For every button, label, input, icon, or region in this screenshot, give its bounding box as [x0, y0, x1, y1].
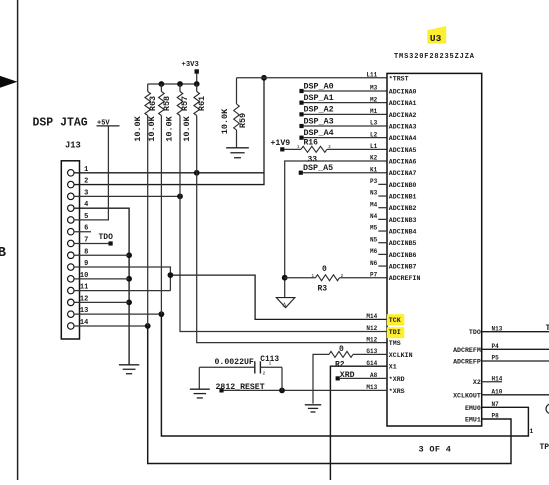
IC pin M5 ADCINB4	[370, 225, 417, 236]
svg-text:ADCINA6: ADCINA6	[389, 159, 417, 166]
svg-text:DSP_A1: DSP_A1	[304, 93, 334, 103]
IC pin A10 XCLKOUT	[453, 389, 503, 400]
IC pin M6 ADCINB6	[370, 248, 417, 259]
svg-text:1: 1	[530, 428, 534, 435]
svg-text:10.0K: 10.0K	[220, 108, 230, 134]
connector J13 pin 13	[68, 307, 89, 317]
svg-text:ADCREFP: ADCREFP	[453, 359, 481, 366]
IC pin G14 X1	[366, 360, 396, 371]
svg-text:ADCINB2: ADCINB2	[389, 205, 417, 212]
IC pin P3 ADCINB0	[370, 178, 417, 189]
resistor R57 (10.0K pullup, TDI net)	[177, 84, 183, 196]
svg-text:ADCINB5: ADCINB5	[389, 240, 417, 247]
svg-text:L2: L2	[370, 131, 378, 138]
R2 (0 ohm) on XCLKIN to ground	[313, 351, 387, 403]
connector J13 pin 5	[68, 213, 89, 223]
svg-text:0: 0	[339, 345, 344, 354]
svg-text:EMU0: EMU0	[465, 405, 481, 412]
svg-text:*TRST: *TRST	[389, 75, 409, 82]
svg-text:XCLKOUT: XCLKOUT	[453, 392, 481, 399]
IC pin N6 ADCINB7	[370, 260, 417, 271]
ground under R59	[226, 147, 249, 149]
resistor R63 (10.0K pullup, EMU1 net)	[145, 84, 151, 326]
IC pin M3 ADCINA0	[370, 85, 417, 96]
junction ADCREFIN/AGND	[282, 275, 288, 281]
svg-text:*XRD: *XRD	[389, 376, 405, 383]
net label DSP_A1 and wire to IC	[299, 93, 387, 105]
+1V9 net label	[271, 139, 291, 151]
connector J13 body	[61, 161, 79, 339]
svg-text:M2: M2	[370, 96, 378, 103]
wire pin13 EMU0 net, junction on R58 leg	[74, 311, 164, 317]
svg-text:TMS320F28235ZJZA: TMS320F28235ZJZA	[394, 53, 475, 61]
svg-text:J13: J13	[65, 141, 81, 151]
svg-text:DSP JTAG: DSP JTAG	[33, 117, 88, 130]
svg-text:ADCINB7: ADCINB7	[389, 264, 417, 271]
svg-text:M4: M4	[370, 201, 378, 208]
connector J13 pin 2	[68, 178, 89, 188]
svg-text:3 OF 4: 3 OF 4	[419, 444, 452, 454]
IC pin P7 ADCREFIN	[370, 271, 421, 282]
svg-text:ADCINA7: ADCINA7	[389, 170, 417, 177]
svg-text:N12: N12	[366, 325, 377, 332]
svg-text:M6: M6	[370, 248, 378, 255]
IC pin N13 TDO	[469, 325, 503, 336]
svg-text:ADCINA3: ADCINA3	[389, 124, 417, 131]
svg-text:R58: R58	[162, 96, 172, 111]
off-page arrow	[0, 75, 17, 89]
net label 2812_RESET and wire to *XRS, junction with C113	[216, 383, 388, 394]
wire TDO to right edge	[482, 331, 549, 333]
svg-text:N3: N3	[370, 190, 378, 197]
IC pin N5 ADCINB5	[370, 236, 417, 247]
svg-text:N4: N4	[370, 213, 378, 220]
svg-text:N5: N5	[370, 236, 378, 243]
svg-text:ADCINA1: ADCINA1	[389, 100, 417, 107]
svg-text:ADCINB0: ADCINB0	[389, 182, 417, 189]
svg-text:P7: P7	[370, 271, 378, 278]
wire pin10 to GND vertical	[74, 278, 129, 280]
svg-text:XRD: XRD	[340, 371, 355, 380]
resistor R58 (10.0K pullup, EMU0 net)	[159, 84, 165, 314]
connector J13 pin 9	[68, 260, 89, 270]
IC pin A8 *XRD	[370, 372, 405, 383]
svg-text:N7: N7	[492, 401, 500, 408]
test point TP (cut at edge)	[530, 404, 549, 452]
net label DSP_A0 and wire to IC	[299, 81, 387, 93]
wire ADCREFM to right edge	[482, 348, 549, 350]
svg-text:K1: K1	[370, 166, 378, 173]
wire EMU1 run: down, right, up to IC pin P8	[148, 326, 511, 464]
svg-text:ADCINB1: ADCINB1	[389, 194, 417, 201]
IC pin M14 TCK	[366, 313, 400, 324]
svg-text:10.0K: 10.0K	[147, 115, 157, 141]
connector J13 pin 8	[68, 248, 89, 258]
svg-text:X1: X1	[389, 364, 397, 371]
resistor R3 (0 ohm) to ADCREFIN	[285, 275, 387, 281]
wire pin12 to GND vertical	[74, 301, 129, 303]
IC pin M1 ADCINA2	[370, 108, 417, 119]
wire pin6 stub (key)	[74, 231, 91, 233]
svg-text:10.0K: 10.0K	[133, 115, 143, 141]
svg-text:X2: X2	[473, 379, 481, 386]
IC pin N3 ADCINB1	[370, 190, 417, 201]
IC pin M12 TMS	[366, 336, 400, 347]
svg-text:M12: M12	[366, 336, 377, 343]
IC pin M4 ADCINB2	[370, 201, 417, 212]
wire pin14 EMU1 net, junction on R63 leg	[74, 323, 151, 329]
svg-text:TDO: TDO	[469, 329, 481, 336]
wire pin1 TMS net (to TRST vertical), junction at R61	[74, 170, 264, 176]
IC pin N12 TDI	[366, 325, 400, 336]
svg-text:DSP_A2: DSP_A2	[304, 105, 334, 115]
+3V3 rail over pullup resistors, junctions at R58,R57,R61	[148, 81, 200, 87]
svg-text:2812_RESET: 2812_RESET	[216, 383, 265, 392]
connector J13 pin 11	[68, 284, 89, 294]
IC pin P4 ADCREFM	[453, 343, 499, 354]
IC pin K1 ADCINA7	[370, 166, 417, 177]
svg-text:P3: P3	[370, 178, 378, 185]
resistor R59 pulldown on TRST	[234, 78, 240, 148]
connector J13 pin 3	[68, 189, 89, 199]
svg-text:B: B	[0, 245, 7, 261]
svg-text:A: A	[283, 302, 287, 309]
capacitor C113	[199, 361, 282, 390]
wire pin11 TCK	[74, 290, 170, 292]
net label DSP_A2 and wire to IC	[299, 105, 387, 117]
wire pin4 GND net: down with junctions at pins 8,10,12 to ground	[74, 208, 132, 364]
net label DSP_A3 and wire to IC	[299, 116, 387, 128]
svg-text:10.0K: 10.0K	[182, 115, 192, 141]
highlight TCK	[387, 314, 405, 325]
svg-text:TDO: TDO	[99, 233, 114, 242]
svg-text:L3: L3	[370, 120, 378, 127]
svg-text:M5: M5	[370, 225, 378, 232]
IC pin H14 X2	[473, 375, 503, 386]
svg-text:10.0K: 10.0K	[165, 115, 175, 141]
net label DSP_A4 and wire to IC	[299, 128, 387, 140]
wire EMU0 run: down, right, up to IC pin N7	[161, 314, 528, 436]
svg-text:U3: U3	[430, 33, 442, 44]
svg-text:R59: R59	[238, 113, 248, 128]
svg-text:ADCINA0: ADCINA0	[389, 89, 417, 96]
svg-text:P8: P8	[492, 413, 500, 420]
wire pin2 *TRST net: right then up to TRST row, junction at TRST row	[74, 75, 267, 185]
svg-text:TDI: TDI	[389, 329, 401, 336]
svg-text:DSP_A0: DSP_A0	[304, 81, 334, 91]
wire pin3 TDI net: to junction with R57 then down and right to IC TDI	[74, 193, 387, 331]
connector J13 pin 12	[68, 295, 89, 305]
wire X2 stub	[482, 381, 502, 383]
bus line (left page edge)	[17, 0, 19, 480]
IC U3 body	[387, 73, 482, 426]
+5V power symbol	[97, 119, 120, 127]
connector J13 pin 4	[68, 201, 89, 211]
svg-text:+3V3: +3V3	[182, 61, 199, 69]
svg-text:K2: K2	[370, 155, 378, 162]
wire pin8 to GND vertical	[74, 254, 129, 256]
svg-text:0.0022UF: 0.0022UF	[215, 358, 254, 367]
wire C113 to ground	[198, 367, 200, 389]
ground under connector	[119, 364, 139, 366]
svg-text:ADCINA4: ADCINA4	[389, 135, 417, 142]
connector J13 pin 14	[68, 319, 89, 329]
svg-text:ADCINB3: ADCINB3	[389, 217, 417, 224]
svg-text:N6: N6	[370, 260, 378, 267]
wire TMS vertical to IC pin M12	[197, 173, 387, 343]
wire TCK feed to IC pin M14	[170, 275, 387, 319]
IC pin L2 ADCINA4	[370, 131, 417, 142]
resistor R16 (33 ohm) to ADCINA5	[284, 146, 387, 152]
ground under R2	[305, 404, 321, 406]
svg-text:L11: L11	[366, 72, 377, 79]
IC pin N7 EMU0	[465, 401, 499, 412]
connector J13 pin 10	[68, 272, 89, 282]
IC pin M2 ADCINA1	[370, 96, 417, 107]
svg-text:R57: R57	[180, 96, 190, 111]
resistor R61 (10.0K pullup, TMS net)	[194, 84, 200, 173]
svg-text:+1V9: +1V9	[271, 139, 291, 148]
connector J13 pin 6	[68, 225, 89, 235]
svg-text:EMU1: EMU1	[465, 417, 481, 424]
svg-text:ADCINB4: ADCINB4	[389, 229, 417, 236]
IC pin L11 *TRST	[366, 72, 408, 83]
svg-text:M1: M1	[370, 108, 378, 115]
svg-text:DSP_A3: DSP_A3	[304, 116, 334, 126]
IC pin L1 ADCINA5	[370, 143, 417, 154]
svg-text:DSP_A5: DSP_A5	[303, 163, 333, 173]
IC pin G13 XCLKIN	[366, 348, 412, 359]
wire pin9 TCK_RET: right then down to TCK tap	[74, 267, 173, 291]
IC pin N4 ADCINB3	[370, 213, 417, 224]
net label TDO	[99, 233, 114, 245]
svg-text:R63: R63	[148, 96, 158, 111]
svg-text:ADCREFIN: ADCREFIN	[389, 275, 421, 282]
highlight TDI	[387, 327, 405, 338]
wire TRST row to IC pin L11	[237, 77, 388, 79]
IC U3 highlight	[427, 26, 446, 44]
IC pin L3 ADCINA3	[370, 120, 417, 131]
+3V3 power symbol	[182, 61, 199, 84]
IC pin P8 EMU1	[465, 413, 499, 424]
svg-text:0: 0	[322, 265, 327, 274]
wire ADCREFP to right edge	[482, 360, 549, 362]
wire pin7 TDO stub	[74, 242, 109, 244]
svg-text:TMS: TMS	[389, 340, 401, 347]
svg-text:ADCINB6: ADCINB6	[389, 252, 417, 259]
svg-text:XCLKIN: XCLKIN	[389, 352, 413, 359]
wire ADCINA6 to AGND junction	[285, 161, 387, 297]
connector J13 pin 1	[68, 166, 89, 176]
svg-text:M14: M14	[366, 313, 377, 320]
svg-text:DSP_A4: DSP_A4	[304, 128, 334, 138]
svg-text:TP: TP	[540, 443, 549, 452]
svg-text:*XRS: *XRS	[389, 388, 405, 395]
svg-text:ADCINA5: ADCINA5	[389, 147, 417, 154]
svg-text:TCK: TCK	[389, 317, 401, 324]
ground under C113	[190, 388, 210, 390]
svg-text:ADCREFM: ADCREFM	[453, 347, 481, 354]
svg-text:ADCINA2: ADCINA2	[389, 112, 417, 119]
svg-text:TD: TD	[546, 324, 549, 333]
IC pin M13 *XRS	[366, 384, 404, 395]
analog ground triangle	[276, 298, 294, 309]
wire XCLKOUT to right edge	[482, 394, 549, 396]
svg-text:R61: R61	[197, 96, 207, 111]
IC pin K2 ADCINA6	[370, 155, 417, 166]
svg-text:R2: R2	[335, 361, 345, 370]
IC pin P5 ADCREFP	[453, 355, 499, 366]
wire pin5 to +5V	[74, 126, 108, 220]
svg-text:1: 1	[269, 361, 272, 366]
svg-text:R16: R16	[304, 139, 319, 148]
svg-text:R3: R3	[318, 284, 328, 293]
svg-text:2: 2	[263, 371, 266, 376]
connector J13 pin 7	[68, 236, 89, 246]
svg-text:M3: M3	[370, 85, 378, 92]
svg-text:L1: L1	[370, 143, 378, 150]
net label XRD and wire to *XRD	[336, 371, 387, 381]
net label DSP_A5 and wire to ADCINA7	[299, 163, 387, 175]
wire X1 down off page	[330, 366, 387, 480]
